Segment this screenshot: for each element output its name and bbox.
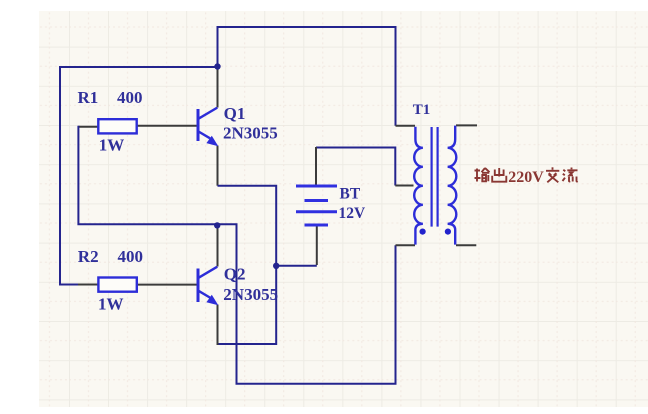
svg-text:2N3055: 2N3055: [223, 123, 278, 142]
wire Q1 emitter pin: [217, 146, 219, 186]
wire battery bottom pin: [316, 226, 318, 265]
output label hanzi jiao: [546, 167, 559, 182]
svg-text:R1: R1: [78, 88, 99, 107]
svg-text:400: 400: [117, 88, 143, 107]
wire emitter rail joining Q1 and Q2 emitters: [218, 186, 277, 344]
node A junction dot: [214, 63, 220, 69]
wire transformer top-left stub: [396, 125, 416, 127]
wire R1 left lead: [78, 126, 98, 128]
svg-text:Q2: Q2: [224, 265, 246, 284]
wire battery minus to emitter rail: [276, 265, 317, 267]
wire transformer bottom-right output stub: [456, 244, 476, 246]
node B junction dot: [214, 222, 220, 228]
svg-text:1W: 1W: [99, 135, 125, 154]
wire R2 left lead: [78, 284, 99, 286]
svg-text:T1: T1: [413, 102, 431, 118]
svg-text:BT: BT: [340, 186, 361, 203]
resistor R1: [98, 119, 136, 133]
wire transformer bottom-left stub: [396, 244, 416, 246]
wire Q2 collector pin: [217, 225, 219, 267]
wire Q1 collector pin: [217, 66, 219, 108]
transformer T1: [414, 126, 456, 245]
wire left feedback loop from node A to R2 left: [60, 67, 217, 285]
wire top rail from Q1 collector node to transformer primary top: [218, 27, 396, 126]
wire battery plus to transformer centre tap: [316, 148, 395, 186]
resistor R2: [98, 278, 136, 292]
svg-text:12V: 12V: [339, 205, 367, 222]
wire transformer centre-tap stub: [395, 185, 413, 187]
output label hanzi shu: [475, 168, 490, 182]
svg-text:220V: 220V: [508, 169, 544, 186]
wire battery top pin: [315, 147, 317, 185]
node C junction dot battery minus: [273, 263, 279, 269]
svg-text:400: 400: [118, 247, 144, 266]
transistor Q2: [198, 267, 218, 306]
transistor Q1: [198, 108, 218, 147]
output label hanzi liu: [563, 168, 578, 182]
wire R2 right lead to Q2 base: [137, 284, 197, 286]
svg-text:2N3055: 2N3055: [223, 285, 278, 304]
battery BT: [296, 186, 337, 225]
wire Q2 emitter pin: [217, 305, 219, 346]
svg-text:Q1: Q1: [224, 104, 246, 123]
svg-text:1W: 1W: [98, 295, 124, 314]
output label hanzi chu: [492, 168, 506, 182]
wire from R1 left down to node B then to bottom rail and transformer primary bottom: [78, 126, 395, 384]
wire transformer top-right output stub: [456, 124, 477, 126]
svg-text:R2: R2: [78, 247, 99, 266]
wire R1 right lead to Q1 base: [137, 125, 197, 127]
